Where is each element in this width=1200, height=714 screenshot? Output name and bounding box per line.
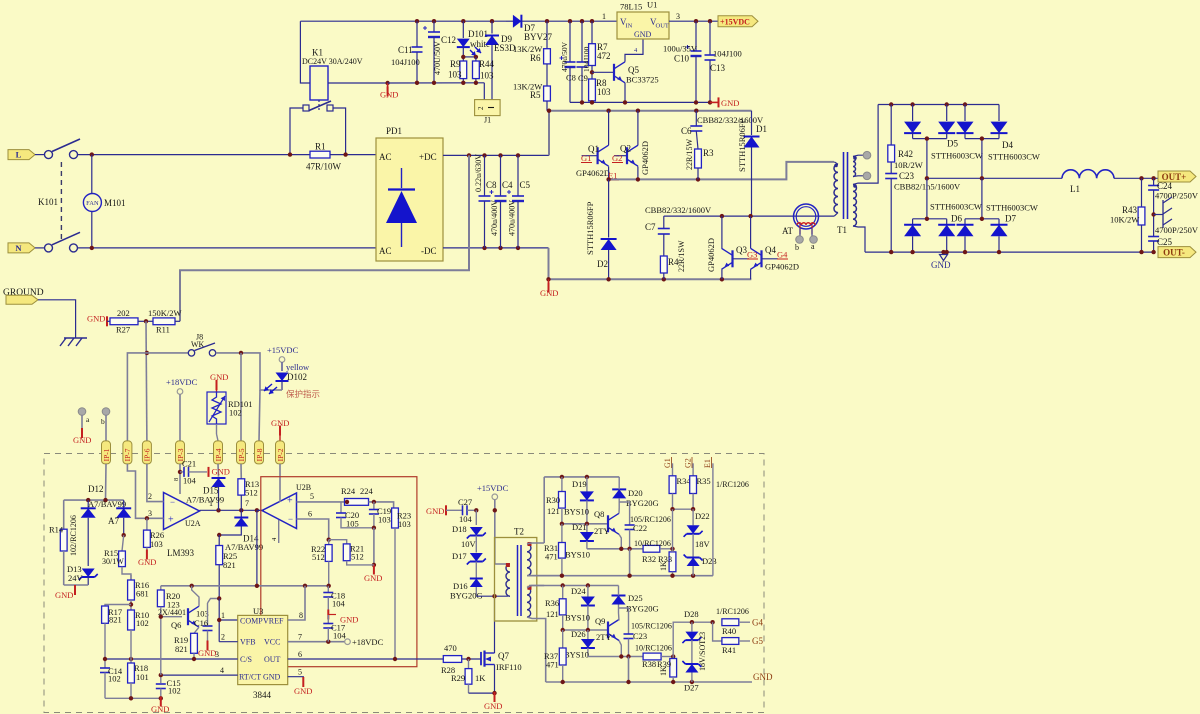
junction out- c25 — [1151, 250, 1155, 254]
wire RTCT to C15 — [160, 675, 162, 683]
wire COMP pin — [218, 599, 220, 621]
resistor R36 121 — [562, 586, 564, 599]
svg-text:103: 103 — [597, 87, 611, 97]
svg-text:OUT: OUT — [264, 655, 281, 664]
svg-text:BYS10: BYS10 — [565, 613, 590, 623]
wire HV bus (gray) — [549, 110, 752, 112]
svg-text:R42: R42 — [898, 149, 913, 159]
wire RTCT pin4 — [161, 674, 238, 676]
svg-text:+18VDC: +18VDC — [352, 637, 384, 647]
svg-text:D5: D5 — [947, 139, 958, 149]
wire Q1 collector — [608, 111, 610, 146]
svg-text:GND: GND — [294, 686, 312, 696]
svg-text:10/RC1206: 10/RC1206 — [634, 539, 671, 548]
svg-text:105: 105 — [346, 519, 359, 529]
resistor R26 103 — [146, 518, 148, 530]
svg-text:470: 470 — [444, 643, 457, 653]
svg-text:A7/BAV99: A7/BAV99 — [186, 495, 224, 505]
resistor R15 30/1W — [122, 535, 124, 551]
diode D26 BYS10 — [587, 630, 589, 639]
svg-text:5: 5 — [310, 492, 314, 501]
svg-text:3: 3 — [215, 650, 219, 659]
junction C5 bot — [516, 246, 520, 250]
svg-text:121: 121 — [546, 609, 559, 619]
svg-text:Q8: Q8 — [594, 509, 604, 519]
svg-text:1K: 1K — [475, 673, 486, 683]
diode D7a STTH6003CW — [964, 219, 966, 225]
wire RD101 to IP-4 — [216, 424, 218, 434]
svg-text:102: 102 — [136, 618, 149, 628]
svg-text:RT/CT: RT/CT — [239, 673, 261, 682]
red highlight box — [261, 477, 417, 667]
wire OUT pin6 — [288, 658, 444, 660]
svg-text:BYG20G: BYG20G — [450, 591, 483, 601]
svg-text:+DC: +DC — [419, 152, 437, 162]
wire IP-5 to R13 — [240, 464, 242, 479]
svg-text:GP4062D: GP4062D — [576, 168, 610, 178]
svg-text:IP-2: IP-2 — [276, 448, 285, 461]
svg-text:R24: R24 — [341, 486, 356, 496]
svg-text:D12: D12 — [88, 484, 104, 494]
resistor R16 681 — [130, 575, 132, 580]
junction C19-C20 — [372, 526, 376, 530]
svg-text:2: 2 — [148, 492, 152, 501]
wire N to switch — [35, 247, 44, 249]
wire sec bottom to out- rail — [853, 226, 865, 252]
wire D4 join — [965, 138, 999, 140]
junction C9 — [580, 19, 584, 23]
svg-text:78L15: 78L15 — [620, 2, 642, 12]
wire R28 to Q7 gate — [462, 658, 481, 660]
wire R32 to R33 — [660, 548, 673, 550]
svg-text:R44: R44 — [479, 59, 495, 69]
wire R8 to Q5 base — [592, 71, 614, 73]
junction IP-5 branch — [239, 351, 243, 355]
svg-text:470u/400V: 470u/400V — [508, 200, 517, 236]
diode D5b STTH6003CW — [946, 105, 948, 122]
power GND C16 — [207, 641, 209, 651]
svg-text:R35: R35 — [697, 476, 711, 486]
wire sec top to rectifier — [853, 105, 878, 185]
pin a — [78, 408, 86, 416]
wire comparator output node — [200, 509, 265, 511]
wire GROUND to earth — [38, 300, 76, 338]
svg-text:C5: C5 — [520, 180, 531, 190]
svg-text:4700P/250V: 4700P/250V — [1155, 191, 1199, 201]
capacitor C12 470U/50V — [433, 21, 435, 32]
svg-text:104J100: 104J100 — [391, 57, 420, 67]
wire emitter to rail — [629, 549, 631, 576]
svg-text:IP-5: IP-5 — [237, 448, 246, 461]
svg-text:D26: D26 — [571, 629, 586, 639]
capacitor C23b 105/RC1206 — [619, 608, 629, 634]
wire IP-5 riser — [240, 353, 242, 441]
capacitor C25 4700P/250V — [1148, 236, 1159, 238]
svg-text:M101: M101 — [104, 198, 126, 208]
svg-text:8: 8 — [299, 611, 303, 620]
svg-text:D1: D1 — [756, 124, 767, 134]
wire R39 node riser — [672, 648, 674, 657]
svg-text:D17: D17 — [452, 551, 467, 561]
resistor R1 47R/10W — [310, 151, 330, 158]
svg-text:104: 104 — [332, 599, 346, 609]
wire R11 to sense — [175, 320, 180, 322]
wire +15 to T2 primary — [495, 500, 508, 564]
svg-text:C11: C11 — [398, 45, 413, 55]
T1 secondary main — [853, 185, 856, 227]
svg-text:DC24V 30A/240V: DC24V 30A/240V — [302, 57, 363, 66]
capacitor C6 CBB82/332/1600V — [695, 111, 697, 126]
svg-text:30/1W: 30/1W — [102, 557, 124, 566]
svg-text:CBB82/332/1600V: CBB82/332/1600V — [697, 115, 764, 125]
wire aux GND rail — [388, 82, 485, 84]
chassis ground output — [1154, 214, 1163, 216]
svg-text:C16: C16 — [194, 618, 208, 628]
svg-text:7: 7 — [245, 499, 249, 508]
svg-text:R3: R3 — [703, 148, 714, 158]
svg-text:104J100: 104J100 — [713, 49, 742, 59]
diode D21 BYS10 — [586, 524, 588, 532]
svg-text:821: 821 — [109, 615, 122, 625]
svg-text:R14: R14 — [49, 525, 64, 535]
svg-text:10R/2W: 10R/2W — [894, 160, 923, 170]
capacitor C22 105/RC1206 — [619, 502, 629, 525]
T1 aux pin top — [863, 151, 871, 159]
svg-text:IRF110: IRF110 — [496, 662, 522, 672]
svg-text:IP-8: IP-8 — [255, 448, 264, 461]
resistor R38 10/RC1206 — [643, 653, 661, 660]
svg-text:+18VDC: +18VDC — [166, 377, 198, 387]
svg-text:681: 681 — [136, 589, 149, 599]
svg-text:C/S: C/S — [240, 655, 252, 664]
svg-text:2: 2 — [477, 106, 485, 110]
net label L — [8, 150, 35, 160]
resistor R18 101 — [130, 659, 132, 663]
svg-text:D4: D4 — [1002, 140, 1013, 150]
svg-text:Q4: Q4 — [765, 245, 776, 255]
svg-text:+: + — [168, 515, 174, 526]
connector IP-6 — [142, 441, 151, 464]
resistor R7 472 — [591, 21, 593, 44]
wire emitter row upper — [619, 534, 621, 549]
diode D4a STTH6003CW — [964, 105, 966, 122]
wire IP-3 to U2A pin8 — [179, 464, 181, 494]
resistor R21 512 — [329, 540, 347, 544]
wire D7 join — [965, 218, 999, 220]
T1 secondary upper (aux) — [853, 157, 856, 177]
svg-text:470u/400V: 470u/400V — [490, 200, 499, 236]
IGBT Q2 GP4062D — [614, 155, 627, 157]
diode D20 BYG20G — [618, 508, 620, 513]
LED D102 yellow — [281, 362, 283, 371]
diode D19 BYS10 — [586, 477, 588, 492]
wire L1 to OUT+ — [1114, 177, 1158, 179]
power GND at K1 — [385, 81, 389, 85]
svg-text:4700P/250V: 4700P/250V — [1155, 225, 1199, 235]
svg-text:5: 5 — [298, 668, 302, 677]
svg-text:G1: G1 — [663, 458, 672, 468]
svg-text:C22: C22 — [633, 523, 647, 533]
svg-text:D21: D21 — [572, 522, 587, 532]
junction R7-R8 — [590, 70, 594, 74]
junction R1 right — [343, 152, 347, 156]
wire R38 to R39 — [661, 656, 673, 658]
svg-text:IN: IN — [626, 23, 633, 30]
svg-text:N: N — [15, 243, 22, 253]
svg-text:Q7: Q7 — [498, 651, 509, 661]
svg-text:VCC: VCC — [264, 638, 280, 647]
svg-text:OUT-: OUT- — [1163, 248, 1185, 258]
capacitor C10 100u/35V — [695, 21, 697, 51]
wire to GND R21C19 — [373, 528, 375, 565]
svg-text:G4: G4 — [777, 250, 788, 260]
zener D17 — [475, 536, 477, 553]
svg-text:GND: GND — [87, 314, 105, 324]
svg-text:T1: T1 — [837, 225, 847, 235]
svg-text:470u/50V: 470u/50V — [560, 41, 569, 72]
wire Q2 emitter — [637, 166, 639, 179]
svg-text:L1: L1 — [1070, 184, 1080, 194]
capacitor C8 0.22u/630V — [484, 155, 486, 196]
svg-text:U3: U3 — [253, 606, 263, 616]
diode D24 BYS10 — [587, 586, 589, 597]
connector IP-1 — [102, 441, 111, 464]
svg-text:R41: R41 — [722, 645, 736, 655]
svg-text:D7: D7 — [1005, 214, 1016, 224]
svg-text:D102: D102 — [287, 372, 307, 382]
U2B pin4 stub — [278, 520, 280, 543]
capacitor C14 102 — [104, 663, 106, 668]
svg-text:STTH6003CW: STTH6003CW — [988, 152, 1040, 162]
svg-text:10V: 10V — [461, 539, 477, 549]
earth ground symbol — [64, 337, 87, 339]
svg-text:1: 1 — [221, 611, 225, 620]
svg-text:202: 202 — [117, 308, 130, 318]
svg-text:CBB82/332/1600V: CBB82/332/1600V — [645, 205, 712, 215]
wire R27-R11 — [138, 320, 153, 322]
diode D4b STTH6003CW — [998, 105, 1000, 122]
svg-text:C9: C9 — [578, 73, 588, 83]
resistor R30 121 — [561, 477, 563, 492]
svg-text:BC33725: BC33725 — [626, 75, 659, 85]
wire D13-R14 gnd — [64, 584, 88, 586]
wire relay contact bridge right — [333, 108, 346, 155]
svg-text:1K: 1K — [659, 666, 668, 676]
svg-text:BYS10: BYS10 — [564, 507, 589, 517]
wire L line to R1 — [78, 154, 311, 156]
resistor R10 102 — [128, 610, 135, 630]
resistor R31 471 — [561, 524, 563, 543]
power GND Q7 — [494, 693, 496, 696]
resistor R27 202 — [107, 320, 110, 322]
comparator U2B — [262, 493, 297, 529]
svg-text:LM393: LM393 — [167, 548, 195, 558]
svg-text:BYG20G: BYG20G — [626, 498, 659, 508]
wire D6 join — [913, 218, 947, 220]
svg-text:D2: D2 — [597, 259, 608, 269]
svg-text:C27: C27 — [458, 497, 472, 507]
svg-text:C24: C24 — [1157, 181, 1173, 191]
svg-text:R11: R11 — [156, 325, 170, 335]
pin b — [102, 408, 110, 416]
wire U2B pin5 — [297, 501, 345, 503]
svg-text:Q5: Q5 — [628, 65, 639, 75]
wire R34 R35 join — [673, 508, 694, 510]
fan motor M101 — [83, 194, 101, 212]
junction +DC sense — [467, 153, 471, 157]
svg-text:472: 472 — [597, 51, 611, 61]
svg-text:1: 1 — [602, 12, 606, 21]
svg-text:C7: C7 — [645, 222, 656, 232]
svg-text:2TY: 2TY — [596, 632, 612, 642]
svg-text:104: 104 — [333, 631, 347, 641]
wire CS left end — [104, 659, 106, 663]
svg-text:102/RC1206: 102/RC1206 — [69, 515, 78, 556]
svg-text:7: 7 — [298, 633, 302, 642]
svg-text:103: 103 — [480, 71, 494, 81]
svg-text:D18: D18 — [452, 524, 467, 534]
resistor R8 103 — [591, 66, 593, 80]
capacitor C27 104 — [446, 509, 462, 511]
wire output bottom rail — [865, 251, 1154, 253]
zener D27 — [691, 640, 693, 663]
connector IP-2 — [276, 441, 285, 464]
svg-text:C23: C23 — [899, 171, 915, 181]
svg-text:GND: GND — [753, 672, 773, 682]
wire VCC pin7 — [288, 641, 345, 643]
svg-text:G5: G5 — [752, 636, 763, 646]
svg-text:GND: GND — [540, 288, 558, 298]
svg-text:18V: 18V — [695, 539, 711, 549]
junction D9 — [490, 19, 494, 23]
IGBT Q4 GP4062D — [750, 216, 752, 248]
wire K1 coil right to GND rail — [328, 82, 388, 84]
svg-text:IP-6: IP-6 — [143, 448, 152, 461]
junction R6 — [545, 19, 549, 23]
diode D16 BYG20G — [475, 562, 477, 579]
wire divider to IP-6 — [145, 321, 148, 441]
junction C4 — [498, 153, 502, 157]
svg-text:3: 3 — [676, 12, 680, 21]
wire D16 to Q7 drain — [476, 595, 508, 597]
svg-text:0.22u/630V: 0.22u/630V — [474, 154, 483, 192]
wire CS pin3 — [105, 658, 238, 660]
diode D1 STTH15R06FP — [751, 111, 753, 135]
svg-text:R30: R30 — [546, 495, 560, 505]
svg-text:GND: GND — [73, 435, 91, 445]
wire IP-2 to U2B top — [279, 464, 281, 502]
dashed board outline — [44, 454, 764, 713]
junction C4 bot — [498, 246, 502, 250]
svg-text:105/RC1206: 105/RC1206 — [630, 515, 671, 524]
wire IP-7 to U2A plus — [127, 464, 163, 518]
IGBT Q1 GP4062D — [582, 155, 598, 157]
wire IP-1 riser — [105, 464, 108, 500]
svg-text:512: 512 — [351, 552, 364, 562]
transformer T1 primary — [834, 164, 838, 212]
junction R7 — [590, 19, 594, 23]
svg-text:D20: D20 — [628, 488, 643, 498]
svg-text:GND: GND — [380, 90, 398, 100]
svg-text:10K/2W: 10K/2W — [1110, 215, 1139, 225]
power GND U3 — [302, 677, 304, 687]
power flag +15VDC — [718, 16, 758, 27]
svg-text:104: 104 — [183, 476, 197, 486]
svg-text:OUT: OUT — [656, 23, 669, 30]
svg-text:STTH6003CW: STTH6003CW — [986, 203, 1038, 213]
junction N-FAN — [90, 246, 94, 250]
svg-text:VFB: VFB — [240, 638, 256, 647]
wire T2s2 to rail lower — [529, 585, 619, 587]
wire gate gnd rail — [546, 681, 752, 683]
resistor R24 224 — [345, 499, 369, 506]
capacitor C15 102 — [156, 683, 166, 685]
svg-text:+15VDC: +15VDC — [267, 345, 299, 355]
wire +DC rail — [443, 154, 549, 156]
wire FAN to N line — [91, 212, 93, 248]
wire Q5 emitter to gnd rail — [624, 83, 626, 103]
svg-text:103: 103 — [378, 515, 391, 525]
svg-text:GND: GND — [484, 701, 502, 711]
wire L input to switch — [35, 154, 44, 156]
resistor R43 10K/2W — [1141, 178, 1143, 207]
net label OUT+ — [1158, 171, 1196, 182]
resistor R13 512 — [238, 479, 245, 495]
svg-text:GND: GND — [721, 98, 739, 108]
svg-text:R1: R1 — [315, 142, 326, 152]
svg-text:FAN: FAN — [86, 200, 99, 207]
svg-text:D23: D23 — [702, 556, 717, 566]
svg-text:C8: C8 — [486, 180, 497, 190]
svg-text:47R/10W: 47R/10W — [306, 162, 342, 172]
capacitor C4 470u/400V — [500, 155, 502, 196]
capacitor C18 104 — [327, 586, 329, 593]
svg-text:D24: D24 — [571, 586, 586, 596]
svg-text:102: 102 — [168, 686, 181, 696]
junction R26 tap — [145, 516, 149, 520]
svg-text:U1: U1 — [647, 0, 657, 10]
svg-text:2TY: 2TY — [594, 526, 610, 536]
junction L-FAN — [90, 152, 94, 156]
svg-text:C23: C23 — [633, 631, 647, 641]
svg-text:D6: D6 — [951, 214, 962, 224]
resistor R11 150K/2W — [153, 318, 175, 325]
svg-text:105/RC1206: 105/RC1206 — [631, 622, 672, 631]
svg-text:R40: R40 — [722, 626, 736, 636]
power GND bottom — [160, 698, 162, 701]
svg-text:PD1: PD1 — [386, 126, 402, 136]
svg-text:8: 8 — [173, 478, 180, 481]
junction R1 left — [288, 152, 292, 156]
svg-text:T2: T2 — [514, 527, 524, 537]
resistor R17 821 — [105, 605, 131, 607]
diode D7b STTH6003CW — [998, 219, 1000, 225]
svg-text:3844: 3844 — [253, 690, 272, 700]
svg-text:BYG20G: BYG20G — [626, 604, 659, 614]
T2 secondary 1 — [527, 544, 531, 576]
switch K101 pole N — [45, 244, 53, 252]
wire IP-8 riser — [259, 390, 260, 441]
AT pin b — [799, 228, 801, 236]
svg-text:150K/2W: 150K/2W — [148, 308, 182, 318]
svg-text:b: b — [101, 417, 105, 426]
svg-text:102: 102 — [108, 674, 121, 684]
svg-text:D101: D101 — [468, 29, 488, 39]
svg-text:471: 471 — [546, 660, 559, 670]
svg-text:GND: GND — [212, 467, 230, 477]
svg-text:R5: R5 — [530, 90, 541, 100]
diode D2 STTH15R06FP — [608, 179, 610, 237]
